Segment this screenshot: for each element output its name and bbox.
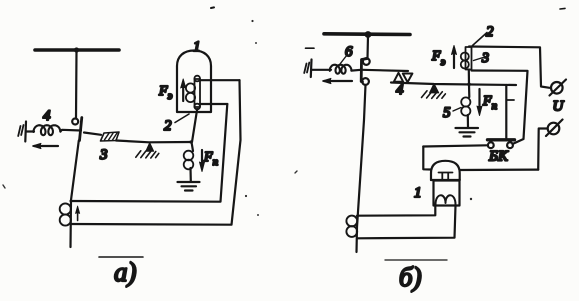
F_e arrow (b) [453, 48, 455, 68]
pivot (b) [430, 84, 439, 93]
contact blade (b) [361, 59, 367, 83]
F_p arrow (b) [478, 89, 480, 112]
speck top middle [211, 6, 214, 9]
wire: node to coil 5 [468, 84, 470, 97]
wire: reed top to outer loop [200, 79, 240, 81]
arrow to line (left) [34, 145, 58, 147]
svg-text:Fэ: Fэ [158, 84, 173, 102]
bell waist line [431, 179, 460, 181]
svg-text:2: 2 [164, 118, 172, 134]
wire: bell left lead [357, 206, 435, 216]
svg-text:1: 1 [193, 39, 201, 55]
ground (a) [178, 182, 200, 191]
speck top right [560, 7, 565, 10]
junction dot on busbar A [74, 47, 79, 52]
wire: reed bottom to node [192, 109, 197, 142]
junction node [189, 140, 192, 143]
terminal lower (circle-slash) [548, 123, 560, 135]
pointer to label 2 [175, 114, 189, 123]
caption b) overline [385, 259, 447, 261]
armature lever (b) [363, 70, 409, 71]
svg-text:5: 5 [443, 105, 451, 121]
BK contact bar [488, 138, 515, 141]
svg-text:2: 2 [486, 24, 494, 40]
pointer to label 2 (b) [473, 33, 488, 46]
armature pad 3 (hatched parallelogram) [101, 132, 120, 141]
wire: reed 3 bottom-side to BK right [472, 71, 528, 145]
wire: lower wire through pivot (b) [391, 83, 516, 86]
wire: pad to pivot to node [116, 141, 191, 143]
wire: reed bottom side tap [200, 103, 227, 105]
contact pair triangles 4 [394, 73, 403, 82]
coil 4 [34, 125, 61, 135]
svg-text:Fп: Fп [203, 150, 219, 168]
wire: bottom loop left segment [423, 147, 431, 170]
contact circle upper (b) [363, 58, 370, 65]
wire: main wire branch down to BK bar [505, 85, 507, 138]
wire: main line (b) down [357, 85, 366, 252]
coil 6 [330, 65, 352, 74]
BK left contact circle [488, 142, 494, 148]
svg-text:4: 4 [43, 108, 51, 124]
armature lever [84, 133, 101, 135]
wire: coil Fp to ground [189, 168, 192, 181]
coil Fp [184, 151, 194, 161]
svg-text:Fп: Fп [482, 94, 498, 112]
svg-text:БК: БК [488, 149, 509, 165]
junction node (b) [467, 83, 471, 87]
speck mid right of a [251, 20, 253, 22]
caption a) overline [99, 256, 143, 258]
wire: inner loop right and bottom [71, 104, 228, 202]
svg-text:б): б) [399, 262, 422, 292]
wire: busbar to contact [75, 51, 78, 118]
wire: bottom loop right segment [460, 169, 538, 172]
svg-text:U: U [553, 99, 565, 115]
arrow to line (left, b) [324, 80, 352, 82]
pointer to label 6 [340, 55, 347, 64]
svg-text:Fэ: Fэ [431, 49, 446, 68]
wire: coil 5 to ground (b) [467, 115, 469, 127]
bell coil winding [436, 195, 456, 204]
wire: node to coil Fp [192, 142, 194, 151]
contact blade [80, 118, 82, 141]
contact circle lower (b) [362, 78, 369, 85]
speck right of a bottom [257, 214, 259, 216]
speck right of b bell [470, 198, 472, 200]
wire: termination to coil 4 [26, 130, 34, 132]
wire: busbar B down to contact [366, 36, 369, 58]
reed contact inside relay 1 [195, 79, 201, 107]
coil on main line (a) [60, 203, 71, 214]
line-termination symbol (to line) [24, 122, 27, 142]
minus sign [306, 47, 315, 49]
busbar A [35, 48, 119, 52]
tick on branch [506, 99, 514, 101]
speck below a loop [245, 195, 247, 197]
wire: main line middle [71, 141, 79, 248]
coil on reed 3 [461, 53, 469, 61]
busbar B [324, 32, 410, 36]
svg-text:а): а) [114, 257, 137, 287]
svg-text:1: 1 [414, 185, 422, 201]
wire: loop to BK left contact [423, 145, 487, 146]
BK right contact circle [507, 142, 513, 148]
arrow up beside coil [77, 209, 79, 221]
wire: bell right lead [357, 206, 456, 239]
F_p arrow (down) [201, 150, 203, 168]
wire: outer loop right and bottom [71, 80, 241, 225]
wire: coil 4 to blade [60, 130, 81, 132]
wire: reed 3 top to upper terminal [469, 47, 550, 88]
coil inside relay 1 [186, 83, 195, 92]
reed contact 3 [466, 47, 472, 70]
svg-text:4: 4 [396, 82, 404, 98]
wire: reed 3 bottom to node [468, 70, 470, 85]
junction dot on busbar B [365, 31, 372, 38]
terminal upper (circle-slash) [551, 82, 563, 94]
svg-text:3: 3 [481, 51, 489, 66]
bell striker 1 dome [431, 161, 460, 180]
wire: termination to coil 6 [312, 69, 331, 71]
contact circle (line disconnect) [72, 119, 78, 125]
svg-text:3: 3 [99, 147, 108, 163]
ground (b) [456, 128, 479, 137]
wire: lower terminal to bottom loop [538, 129, 546, 170]
speck left margin b [295, 171, 297, 173]
wire: coil 6 to blade [351, 69, 361, 72]
speck left edge ground a [3, 185, 5, 188]
electromagnet relay 1 (bell housing) [177, 51, 211, 113]
coil 5 [461, 97, 470, 106]
line-termination symbol (b) [310, 60, 313, 78]
label 3 pointer (b) [474, 58, 484, 61]
speck right of a bell [255, 42, 257, 44]
svg-text:6: 6 [345, 44, 353, 60]
bell coil box [434, 181, 460, 206]
pointer to label 5 [453, 108, 461, 112]
F_e arrow (up) [182, 82, 184, 101]
coil on main line (b) [346, 216, 357, 227]
pivot (fulcrum with hatching) [146, 143, 154, 151]
bell inner armature [439, 173, 453, 180]
